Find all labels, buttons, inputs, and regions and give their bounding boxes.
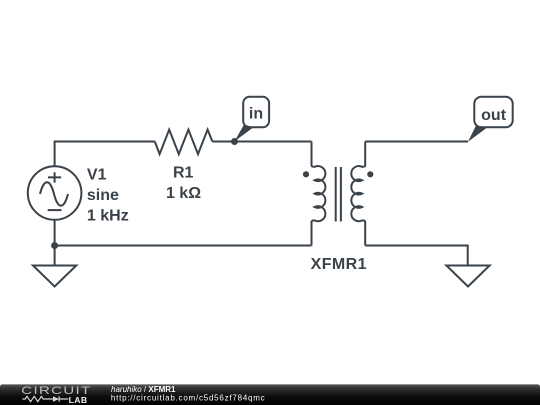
node flag out [468, 97, 513, 142]
transformer XFMR1 secondary winding [351, 142, 365, 246]
wire bottom primary return [55, 245, 312, 247]
transformer XFMR1 primary winding [312, 142, 326, 246]
svg-text:R1: R1 [173, 164, 194, 181]
wire V1 bottom [54, 220, 56, 246]
node in junction dot [231, 138, 238, 145]
wire resistor to transformer primary [212, 141, 311, 143]
svg-text:1 kHz: 1 kHz [87, 207, 129, 224]
transformer core [336, 167, 341, 222]
logo diode [53, 396, 68, 402]
ground left [33, 246, 76, 287]
svg-text:out: out [481, 107, 507, 124]
svg-text:in: in [249, 106, 263, 123]
logo resistor zigzag [22, 396, 53, 401]
ground right [446, 266, 489, 287]
svg-text:LAB: LAB [69, 395, 88, 405]
resistor R1 [155, 130, 213, 155]
value label R1 1 kΩ [166, 164, 201, 202]
junction dot at V1 ground node [51, 242, 58, 249]
svg-text:1 kΩ: 1 kΩ [166, 185, 201, 202]
footer bar [0, 384, 540, 405]
voltage source V1 [28, 166, 82, 220]
svg-text:V1: V1 [87, 166, 107, 183]
node flag in [235, 97, 270, 142]
svg-text:sine: sine [87, 187, 119, 204]
svg-text:http://circuitlab.com/c5d56zf7: http://circuitlab.com/c5d56zf784qmc [111, 393, 266, 402]
svg-text:XFMR1: XFMR1 [311, 256, 367, 273]
phase dot secondary [367, 171, 373, 177]
wire secondary bottom to ground [365, 246, 468, 266]
wire V1 top to resistor [55, 142, 155, 167]
value label V1 sine 1 kHz [87, 166, 129, 224]
phase dot primary [303, 171, 309, 177]
wire secondary top to out [365, 141, 468, 143]
